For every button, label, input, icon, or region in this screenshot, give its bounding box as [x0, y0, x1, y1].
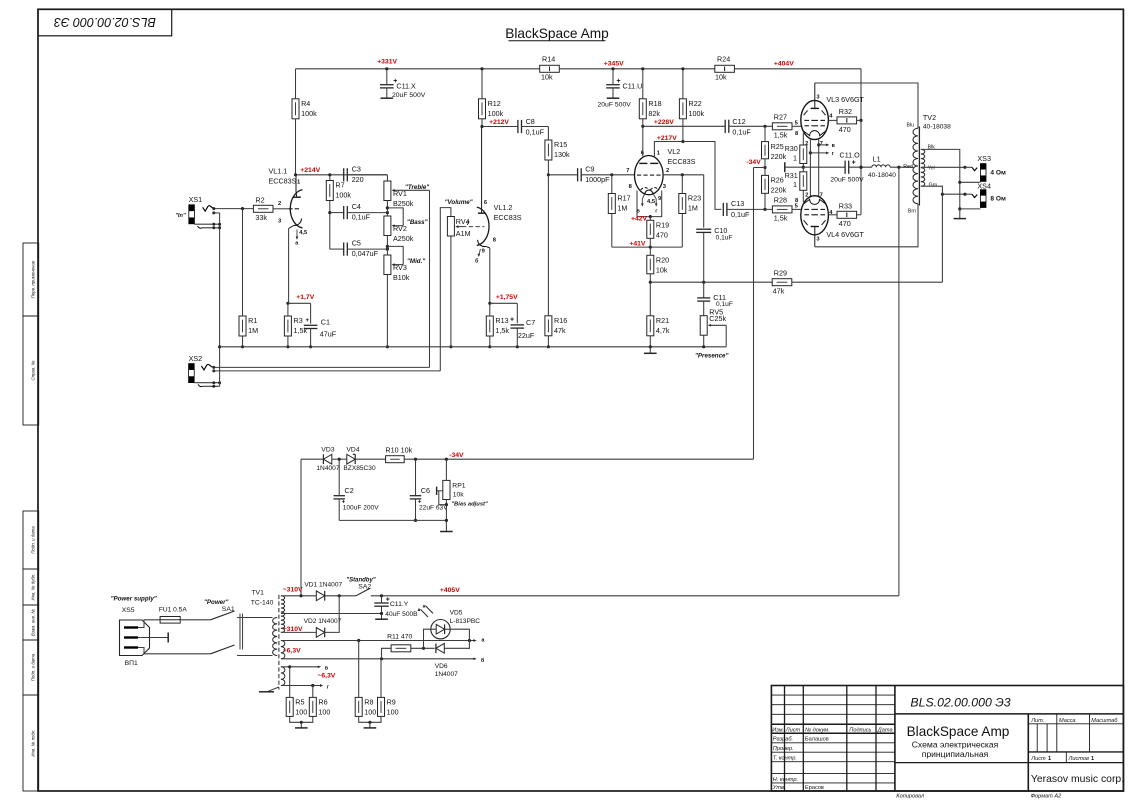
- svg-text:1: 1: [1048, 756, 1051, 762]
- svg-text:B10k: B10k: [393, 273, 410, 282]
- svg-text:TC-140: TC-140: [251, 600, 274, 607]
- wire RV4 bottom to ground bus: [450, 236, 452, 346]
- heater line a: [281, 640, 474, 642]
- svg-text:0,047uF: 0,047uF: [352, 249, 379, 258]
- ground at C11.Y: [375, 618, 388, 620]
- tube VL1.2 triode: [477, 127, 522, 249]
- svg-text:0,1uF: 0,1uF: [716, 235, 733, 242]
- margin stamp box "Справ. №": [23, 316, 39, 425]
- svg-text:Масса: Масса: [1059, 718, 1076, 724]
- svg-text:8 Ом: 8 Ом: [990, 196, 1006, 203]
- svg-text:R6: R6: [318, 698, 327, 707]
- wire VD6 right: [444, 641, 469, 649]
- wire R9 top: [380, 659, 382, 698]
- svg-text:R2: R2: [255, 196, 264, 205]
- wire VL3 screen to R32: [828, 119, 837, 121]
- wire VL2 cathode wrap: [637, 191, 662, 219]
- svg-text:R24: R24: [717, 54, 730, 63]
- wire RP1 top: [445, 459, 447, 480]
- heater lead of VL1.2: [475, 248, 486, 264]
- fuse FU1: [159, 606, 187, 623]
- resistor R2: [253, 196, 273, 222]
- svg-text:VD5: VD5: [450, 610, 463, 617]
- svg-text:R11 470: R11 470: [387, 634, 412, 641]
- capacitor C10: [696, 229, 711, 232]
- wire node to C1: [288, 302, 311, 304]
- capacitor C13: [723, 203, 727, 216]
- title block frame: [771, 686, 1123, 792]
- margin stamp box "Инв. № дубл.": [23, 569, 39, 605]
- wire R18 bottom / VL2 plate 6: [642, 119, 644, 156]
- wire C2 top: [338, 459, 340, 496]
- wire node to C7: [490, 302, 518, 304]
- svg-text:Инв. № дубл.: Инв. № дубл.: [31, 573, 36, 600]
- resistor R5: [286, 697, 307, 716]
- svg-text:"Bias adjust": "Bias adjust": [451, 501, 488, 507]
- svg-text:R19: R19: [656, 221, 669, 230]
- wire R4 bottom to +214V node: [295, 119, 297, 175]
- svg-text:100: 100: [387, 708, 399, 717]
- svg-text:7: 7: [626, 168, 629, 174]
- tube VL4 6V6GT: [795, 193, 865, 247]
- svg-text:20uF 500V: 20uF 500V: [830, 177, 864, 184]
- wire -34V to bias feed: [754, 167, 766, 169]
- svg-text:82k: 82k: [648, 109, 660, 118]
- svg-text:C11.Y: C11.Y: [390, 601, 409, 608]
- wire XS2 return line: [214, 370, 440, 372]
- resistor R22: [679, 99, 704, 119]
- resistor R3: [284, 316, 307, 336]
- svg-text:TV1: TV1: [251, 590, 264, 597]
- resistor R11: [391, 645, 411, 652]
- wire XS1 to R2: [214, 208, 254, 210]
- svg-text:10k: 10k: [656, 266, 668, 275]
- wire R3 top: [287, 303, 289, 316]
- svg-text:+214V: +214V: [300, 167, 320, 174]
- XS2 tip contacts: [201, 364, 215, 372]
- svg-text:+: +: [386, 597, 390, 604]
- svg-text:+: +: [393, 78, 397, 85]
- wire R3 bottom: [287, 336, 289, 347]
- wire C5 to pot chain: [347, 248, 387, 250]
- svg-text:A250k: A250k: [393, 234, 414, 243]
- svg-text:100: 100: [295, 708, 307, 717]
- svg-text:1000pF: 1000pF: [585, 175, 610, 184]
- svg-text:+: +: [305, 317, 309, 324]
- svg-text:ECC83S: ECC83S: [269, 177, 297, 186]
- resistor R25: [762, 142, 787, 161]
- connector XS2: [189, 354, 203, 383]
- wire R18 top: [642, 69, 644, 99]
- resistor R10: [386, 456, 405, 463]
- svg-text:+228V: +228V: [654, 119, 674, 126]
- svg-text:+41V: +41V: [629, 240, 646, 247]
- svg-text:R29: R29: [774, 269, 787, 278]
- wire C8 to R15: [522, 126, 549, 128]
- potentiometer RV3: [384, 255, 410, 282]
- XS1 tip contact: [203, 206, 216, 215]
- svg-text:7: 7: [466, 221, 469, 227]
- wire R15 node to C9: [548, 174, 577, 176]
- trimmer RP1: [437, 480, 488, 507]
- power inlet VP1: [120, 620, 150, 667]
- svg-text:4,5: 4,5: [299, 230, 308, 236]
- inductor L1: [868, 154, 896, 178]
- heater taps to windings: [809, 143, 835, 157]
- capacitor C1: [304, 325, 318, 328]
- wire R21 bottom: [649, 336, 651, 347]
- svg-text:XS2: XS2: [189, 354, 203, 363]
- svg-text:+212V: +212V: [489, 119, 509, 126]
- potentiometer RV1: [384, 181, 430, 208]
- svg-text:TV2: TV2: [923, 113, 936, 122]
- wire rail R14 to R24: [559, 68, 715, 70]
- wire R11 right: [411, 647, 435, 649]
- wire RV1 to RV2: [386, 201, 388, 217]
- svg-text:Схема электрическая: Схема электрическая: [912, 739, 999, 749]
- wire C3 to RV1: [347, 174, 387, 176]
- svg-text:R30: R30: [785, 144, 798, 153]
- svg-text:VD3: VD3: [321, 446, 334, 453]
- wire +228V line to C12: [643, 125, 725, 127]
- capacitor C11.U: [606, 85, 620, 88]
- svg-text:FU1 0.5A: FU1 0.5A: [159, 606, 187, 613]
- svg-text:C25k: C25k: [709, 314, 726, 323]
- wire C9 to VL2 grid: [581, 174, 634, 176]
- resistor R15: [545, 140, 570, 160]
- wire +405V up to output stage: [898, 167, 900, 596]
- wire C11 top: [703, 282, 705, 298]
- chassis ground at inlet: [167, 633, 169, 643]
- switch SA1: [211, 606, 243, 654]
- wire R23 bottom: [681, 214, 683, 248]
- wire C11.Y top: [381, 596, 383, 603]
- capacitor C11: [697, 298, 710, 301]
- svg-text:VL1.1: VL1.1: [269, 167, 288, 176]
- svg-text:L1: L1: [873, 154, 881, 163]
- svg-text:~6,3V: ~6,3V: [317, 673, 335, 680]
- svg-text:2: 2: [666, 168, 669, 174]
- wire C11.X top: [386, 69, 388, 85]
- svg-text:C9: C9: [585, 164, 594, 173]
- heater line b: [281, 658, 474, 660]
- wire RV5 bottom: [703, 335, 705, 347]
- svg-text:Взам. инв. №: Взам. инв. №: [31, 609, 36, 636]
- svg-text:~310V: ~310V: [283, 626, 303, 633]
- svg-text:0,1uF: 0,1uF: [352, 213, 371, 222]
- svg-text:0,1uF: 0,1uF: [732, 127, 751, 136]
- svg-text:+345V: +345V: [604, 60, 624, 67]
- wire R1 top: [242, 209, 244, 316]
- svg-text:BZX85C30: BZX85C30: [343, 465, 376, 472]
- wire C11 to RV5: [703, 301, 705, 316]
- svg-text:1: 1: [793, 153, 797, 162]
- wire C1 bottom: [310, 329, 312, 347]
- wire C12 to R27: [729, 125, 773, 127]
- svg-text:R1: R1: [248, 316, 257, 325]
- wire R2 to grid VL1.1: [273, 208, 288, 210]
- wire R33 right: [857, 214, 861, 216]
- margin stamp box "Перв. применение": [23, 243, 39, 316]
- resistor R19: [647, 220, 669, 239]
- ground bar cathode sense: [784, 162, 786, 172]
- svg-text:Копировал: Копировал: [896, 794, 925, 800]
- svg-text:Масштаб: Масштаб: [1091, 718, 1118, 724]
- svg-text:20uF 500V: 20uF 500V: [392, 92, 426, 99]
- svg-text:"Treble": "Treble": [405, 184, 429, 191]
- svg-text:A1M: A1M: [456, 229, 471, 238]
- svg-text:Grn: Grn: [929, 182, 938, 188]
- svg-text:220k: 220k: [771, 186, 787, 195]
- wire +212V node to C8: [482, 126, 518, 128]
- wire ground to node: [785, 166, 804, 168]
- wire bias ground line: [339, 519, 446, 521]
- LED VD5: [418, 604, 481, 639]
- wire C2 bottom: [338, 499, 340, 521]
- svg-text:C3: C3: [352, 164, 361, 173]
- wire R11 left to heater line b: [382, 648, 392, 659]
- svg-text:+331V: +331V: [377, 58, 397, 65]
- svg-text:R23: R23: [688, 194, 701, 203]
- svg-text:0,1uF: 0,1uF: [731, 210, 750, 219]
- svg-text:Blu: Blu: [907, 122, 915, 128]
- svg-text:4,7k: 4,7k: [656, 326, 670, 335]
- XS4 tip contact: [965, 194, 977, 197]
- wire R31 top: [802, 167, 804, 172]
- footer labels: [896, 794, 1062, 800]
- svg-text:C13: C13: [731, 199, 744, 208]
- ground bias supply: [440, 531, 453, 533]
- wire RV5 wiper loop to bus: [725, 325, 727, 347]
- svg-text:C11.O: C11.O: [840, 151, 861, 160]
- wire XS1 switch contact down: [214, 212, 220, 214]
- wire inlet bottom pin to switch: [138, 648, 211, 654]
- svg-text:+1,75V: +1,75V: [496, 294, 518, 301]
- wire R20 bottom to feedback node: [649, 274, 651, 282]
- chassis ground of TV1: [259, 687, 279, 692]
- svg-text:принципиальная: принципиальная: [922, 749, 989, 759]
- wire R22 bottom: [682, 119, 684, 142]
- margin stamp box "Взам. инв. №": [23, 605, 39, 640]
- svg-text:40-18040: 40-18040: [868, 172, 896, 179]
- svg-text:100k: 100k: [301, 109, 317, 118]
- svg-text:R31: R31: [785, 171, 798, 180]
- wire R4 top: [295, 69, 297, 99]
- wire VL4 plate to Brn: [815, 204, 918, 247]
- svg-text:100: 100: [318, 708, 330, 717]
- svg-text:R5: R5: [295, 698, 304, 707]
- svg-text:1,5k: 1,5k: [774, 214, 788, 223]
- resistor R4: [292, 99, 317, 119]
- svg-text:VD1 1N4007: VD1 1N4007: [304, 581, 342, 588]
- tube VL1.1 triode: [269, 167, 309, 237]
- svg-text:R25: R25: [771, 142, 784, 151]
- wire R23 top: [681, 175, 683, 194]
- svg-text:VD2 1N4007: VD2 1N4007: [304, 618, 342, 625]
- node +41V line: [612, 246, 683, 248]
- svg-text:VL1.2: VL1.2: [494, 203, 513, 212]
- wire VL4 screen to R33: [828, 214, 837, 216]
- wire R31 bottom to VL4 cathode: [802, 190, 804, 202]
- resistor R13: [486, 316, 509, 336]
- resistor R27: [772, 123, 792, 130]
- svg-text:C6: C6: [421, 486, 430, 495]
- resistor R32: [837, 117, 857, 124]
- diode VD6: [436, 643, 444, 653]
- resistor R6: [309, 697, 330, 716]
- ground R8 R9: [369, 722, 371, 728]
- resistor R16: [545, 316, 567, 336]
- svg-text:Справ. №: Справ. №: [31, 360, 36, 380]
- margin stamp box "Подп. и дата": [23, 640, 39, 695]
- svg-text:C1: C1: [321, 317, 330, 326]
- wire R25 top: [764, 126, 766, 141]
- wire R25 bottom: [764, 159, 766, 168]
- svg-text:ECC83S: ECC83S: [494, 213, 522, 222]
- svg-text:BlackSpace Amp: BlackSpace Amp: [907, 724, 1010, 739]
- wire inlet mid pin to chassis: [138, 637, 168, 639]
- svg-text:220k: 220k: [771, 152, 787, 161]
- wire R5 top: [289, 667, 291, 698]
- svg-text:+: +: [510, 317, 514, 324]
- svg-text:BLS.02.00.000 Э3: BLS.02.00.000 Э3: [54, 15, 156, 29]
- svg-text:R7: R7: [335, 181, 344, 190]
- svg-text:R28: R28: [774, 196, 787, 205]
- capacitor C7: [511, 325, 525, 328]
- wire +217V line: [654, 142, 721, 210]
- resistor R26: [762, 175, 787, 194]
- wire bias tap up: [300, 459, 302, 596]
- ground under C11.X: [381, 97, 394, 99]
- svg-text:"Mid.": "Mid.": [407, 258, 425, 265]
- svg-text:Формат А2: Формат А2: [1031, 794, 1062, 800]
- capacitor C6: [410, 496, 421, 499]
- svg-text:Провер.: Провер.: [773, 746, 794, 752]
- svg-text:+: +: [852, 159, 856, 166]
- svg-text:C12: C12: [732, 117, 745, 126]
- svg-text:470: 470: [839, 219, 851, 228]
- wire R7 top: [329, 175, 331, 181]
- wire C4 to pot chain: [347, 212, 387, 214]
- wire L1 to Red tap: [890, 166, 913, 168]
- capacitor C5: [344, 243, 348, 256]
- wire R16 feed down: [547, 175, 549, 316]
- heater line v: [281, 666, 318, 668]
- svg-text:+: +: [418, 498, 422, 505]
- wire VD2 to junction: [325, 596, 340, 633]
- wire R15 bottom: [547, 160, 549, 175]
- wire R32 right: [857, 119, 861, 121]
- sheet title BlackSpace Amp: [505, 26, 609, 41]
- wire R13 top: [489, 303, 491, 316]
- wire RV4 wiper arrow with grid dash: [455, 221, 484, 228]
- svg-text:+1,7V: +1,7V: [296, 294, 314, 301]
- wire R21 top: [649, 282, 651, 316]
- resistor R12: [479, 99, 504, 119]
- svg-text:100k: 100k: [335, 191, 351, 200]
- svg-text:Yel: Yel: [928, 166, 935, 172]
- svg-text:C5: C5: [352, 239, 361, 248]
- heater leads of VL2: [637, 195, 662, 215]
- svg-text:L-813PBC: L-813PBC: [450, 618, 481, 625]
- document number box (rotated): [38, 9, 172, 36]
- margin stamp box "Подп. и дата": [23, 511, 39, 569]
- resistor R23: [679, 194, 701, 214]
- wire R19 top: [649, 217, 651, 221]
- svg-text:R26: R26: [771, 176, 784, 185]
- wire RV2 wiper loop: [387, 208, 403, 226]
- title text: [907, 724, 1010, 759]
- capacitor C12: [725, 120, 729, 133]
- svg-text:VD6: VD6: [435, 663, 448, 670]
- resistor R21: [647, 316, 670, 336]
- svg-text:22uF 63V: 22uF 63V: [419, 505, 448, 512]
- svg-text:1,5k: 1,5k: [495, 326, 509, 335]
- diode VD1: [316, 591, 324, 601]
- svg-text:VD4: VD4: [346, 446, 359, 453]
- wire R22 top: [682, 69, 684, 99]
- wire VD1 to standby: [325, 595, 356, 597]
- svg-text:R18: R18: [648, 99, 661, 108]
- tube VL3 6V6GT: [795, 83, 865, 147]
- wire VD4 to R10: [355, 458, 385, 460]
- svg-text:+405V: +405V: [440, 587, 460, 594]
- wire C7 bottom: [516, 328, 518, 347]
- wire XS4 sleeve: [960, 208, 981, 210]
- svg-text:10k: 10k: [453, 491, 465, 498]
- svg-text:Балашов: Балашов: [805, 737, 829, 743]
- wire R10 to -34V node: [404, 458, 753, 460]
- svg-text:Лист: Лист: [1030, 756, 1046, 762]
- svg-text:R8: R8: [364, 698, 373, 707]
- heater bus VL3 to VL4: [810, 139, 818, 198]
- wire feedback node to R29: [650, 281, 772, 283]
- resistor R9: [378, 697, 399, 716]
- svg-text:Ерасов: Ерасов: [805, 785, 824, 791]
- svg-text:Yerasov music corp.: Yerasov music corp.: [1031, 774, 1124, 785]
- svg-text:Лит.: Лит.: [1030, 718, 1044, 724]
- ground bus: [220, 346, 727, 348]
- diode VD2: [316, 628, 324, 638]
- wire R20 top: [649, 247, 651, 255]
- capacitor C2: [334, 496, 345, 499]
- wire R19 bottom: [649, 238, 651, 247]
- svg-text:VL4 6V6GT: VL4 6V6GT: [826, 230, 864, 239]
- svg-text:Подпись: Подпись: [849, 727, 871, 733]
- wire RV4 top to loop return: [440, 208, 451, 371]
- heater lead a of VL1.1: [295, 230, 299, 247]
- svg-text:20uF 500V: 20uF 500V: [598, 101, 632, 108]
- svg-text:"Presence": "Presence": [695, 352, 728, 359]
- wire to bias ground: [445, 520, 447, 531]
- svg-text:C4: C4: [352, 202, 361, 211]
- svg-text:C2: C2: [345, 486, 354, 495]
- svg-text:№ докум.: № докум.: [805, 727, 830, 733]
- wire R8 R9 bottoms: [359, 716, 381, 722]
- wire node to C11.O: [803, 166, 845, 168]
- ground R5 R6: [300, 722, 302, 728]
- svg-text:~6,3V: ~6,3V: [283, 648, 301, 655]
- svg-text:1M: 1M: [248, 326, 258, 335]
- wire HV bottom tap: [281, 631, 316, 633]
- connector XS1: [175, 195, 202, 224]
- wire C11.O to L1: [849, 166, 872, 168]
- svg-text:Brn: Brn: [908, 208, 916, 214]
- capacitor C3: [344, 168, 348, 181]
- wire C11.Y bottom: [381, 606, 383, 619]
- title block grid: [771, 686, 1123, 792]
- resistor R17: [608, 194, 630, 214]
